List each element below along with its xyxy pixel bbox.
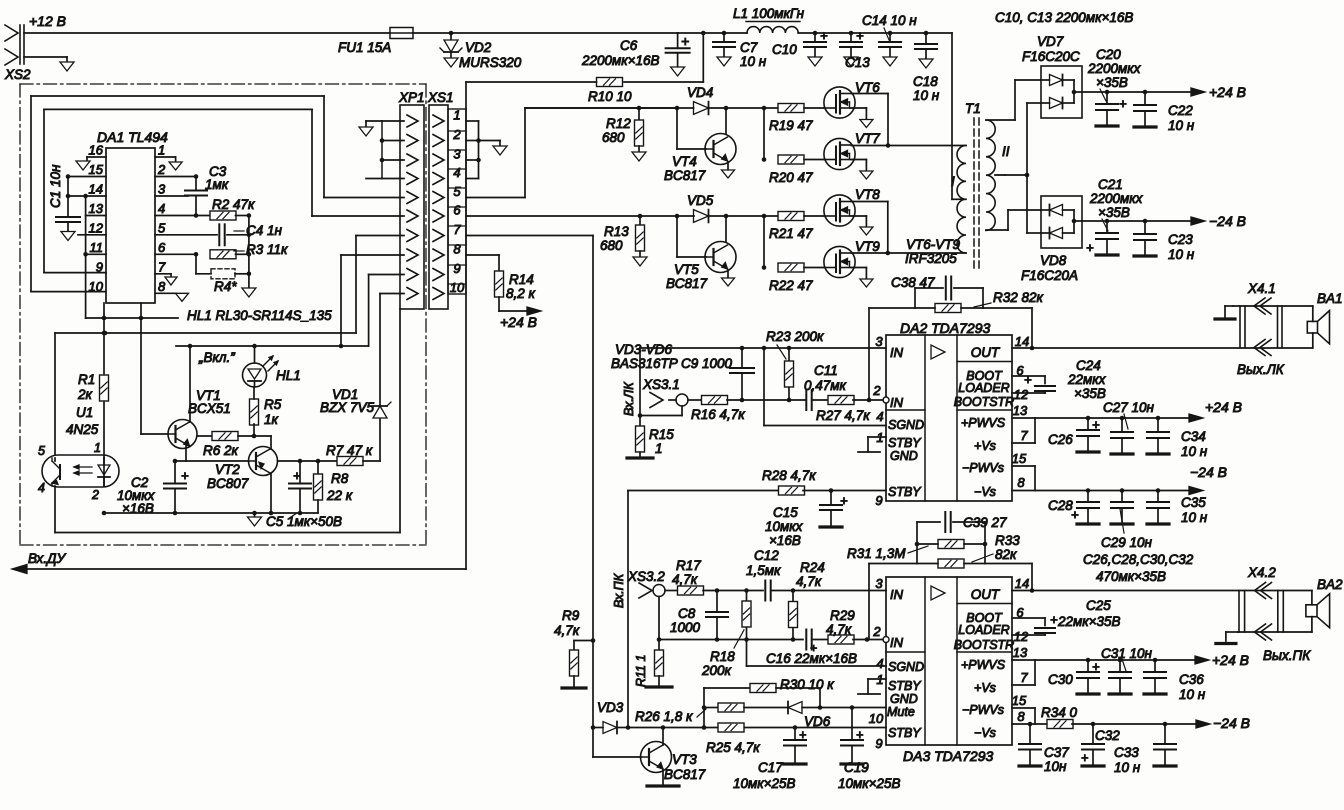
svg-text:C12: C12 <box>754 548 779 563</box>
svg-text:VT9: VT9 <box>855 239 880 254</box>
svg-text:R21 47: R21 47 <box>769 226 813 241</box>
svg-text:II: II <box>1002 144 1010 159</box>
svg-text:+: + <box>681 33 689 49</box>
svg-text:VD8: VD8 <box>1040 253 1067 268</box>
svg-text:BC817: BC817 <box>664 767 706 782</box>
svg-text:22мк×35В: 22мк×35В <box>1057 614 1121 629</box>
svg-text:+24 В: +24 В <box>1209 84 1246 100</box>
svg-text:10 н: 10 н <box>1168 118 1195 133</box>
svg-text:2200мк×16В: 2200мк×16В <box>581 53 660 68</box>
svg-text:10мкх: 10мкх <box>765 519 804 534</box>
svg-text:6: 6 <box>453 203 461 218</box>
svg-text:C26,C28,C30,C32: C26,C28,C30,C32 <box>1083 552 1194 567</box>
svg-text:R26 1,8 к: R26 1,8 к <box>635 709 693 724</box>
svg-text:10 н: 10 н <box>1181 510 1208 525</box>
svg-text:×16В: ×16В <box>122 501 154 516</box>
svg-text:U1: U1 <box>76 405 93 420</box>
svg-text:10н: 10н <box>1044 759 1067 774</box>
svg-text:C37: C37 <box>1044 745 1069 760</box>
svg-text:7: 7 <box>1020 670 1028 685</box>
svg-text:Mute: Mute <box>887 705 915 719</box>
svg-text:+: + <box>840 493 848 508</box>
svg-text:4N25: 4N25 <box>66 422 99 437</box>
svg-text:1000: 1000 <box>670 620 701 635</box>
svg-text:13: 13 <box>1013 645 1028 660</box>
svg-text:C5 1мк×50В: C5 1мк×50В <box>266 514 342 529</box>
svg-text:R22 47: R22 47 <box>769 278 813 293</box>
svg-text:C13: C13 <box>845 55 870 70</box>
svg-text:1мк: 1мк <box>205 177 229 192</box>
svg-text:XS3.2: XS3.2 <box>627 569 665 584</box>
svg-text:VT2: VT2 <box>215 462 240 477</box>
svg-text:+: + <box>1119 96 1127 111</box>
svg-text:R1: R1 <box>78 372 95 387</box>
svg-text:10 н: 10 н <box>913 88 940 103</box>
svg-text:5: 5 <box>453 184 461 199</box>
svg-text:BA1: BA1 <box>1317 291 1343 306</box>
svg-text:C24: C24 <box>1076 358 1101 373</box>
svg-text:−Vs: −Vs <box>974 726 996 740</box>
svg-text:R19 47: R19 47 <box>769 118 813 133</box>
svg-text:Вых.ЛК: Вых.ЛК <box>1237 362 1285 377</box>
svg-text:+12 В: +12 В <box>29 13 66 29</box>
svg-text:5: 5 <box>38 444 45 458</box>
svg-text:T1: T1 <box>965 101 981 116</box>
svg-text:+PWVS: +PWVS <box>961 658 1006 672</box>
svg-text:C25: C25 <box>1086 598 1111 613</box>
svg-text:C4 1н: C4 1н <box>246 223 283 238</box>
svg-text:+Vs: +Vs <box>974 681 996 695</box>
svg-text:200к: 200к <box>701 663 732 678</box>
svg-text:VD2: VD2 <box>465 40 492 55</box>
svg-text:VT5: VT5 <box>674 262 699 277</box>
svg-text:C31 10н: C31 10н <box>1101 646 1153 661</box>
svg-text:1: 1 <box>94 441 101 455</box>
svg-text:R25 4,7к: R25 4,7к <box>706 740 760 755</box>
svg-text:R2 47к: R2 47к <box>212 197 255 212</box>
svg-text:−Vs: −Vs <box>974 485 996 499</box>
svg-text:BOOTSTR: BOOTSTR <box>954 638 1014 652</box>
svg-text:+: + <box>1081 751 1088 765</box>
svg-text:R31 1,3М: R31 1,3М <box>847 546 906 561</box>
svg-text:3: 3 <box>875 334 883 349</box>
svg-text:14: 14 <box>1015 576 1029 591</box>
svg-text:VT4: VT4 <box>672 154 697 169</box>
svg-text:R4*: R4* <box>214 279 237 294</box>
svg-text:F16C20C: F16C20C <box>1022 49 1080 64</box>
svg-text:9: 9 <box>875 736 882 751</box>
svg-text:R5: R5 <box>264 397 282 412</box>
svg-text:12: 12 <box>1014 387 1029 402</box>
svg-text:14: 14 <box>1015 334 1029 349</box>
svg-text:STBY: STBY <box>888 485 922 499</box>
svg-text:−PWVs: −PWVs <box>962 703 1004 717</box>
svg-text:10 н: 10 н <box>1168 247 1195 262</box>
svg-text:+: + <box>799 728 806 742</box>
svg-text:×16В: ×16В <box>769 533 801 548</box>
svg-text:C26: C26 <box>1048 432 1073 447</box>
svg-text:R11 1: R11 1 <box>634 655 648 687</box>
svg-text:+24 В: +24 В <box>500 314 537 330</box>
svg-text:Вх.ЛК: Вх.ЛК <box>622 382 636 416</box>
svg-text:BZX 7V5: BZX 7V5 <box>320 400 375 415</box>
svg-text:VT8: VT8 <box>855 187 880 202</box>
svg-text:IN: IN <box>890 587 904 602</box>
svg-text:C27 10н: C27 10н <box>1103 400 1155 415</box>
svg-text:L1 100мкГн: L1 100мкГн <box>733 6 805 21</box>
svg-text:Вх.ДУ: Вх.ДУ <box>28 551 67 566</box>
svg-text:R9: R9 <box>562 608 580 623</box>
svg-text:+24 В: +24 В <box>1205 399 1242 415</box>
svg-text:+PWVS: +PWVS <box>961 416 1006 430</box>
svg-text:C11: C11 <box>814 363 838 378</box>
svg-text:IN: IN <box>890 635 904 650</box>
svg-text:R10 10: R10 10 <box>588 89 632 104</box>
svg-text:7: 7 <box>453 222 461 237</box>
svg-text:C10, C13 2200мк×16В: C10, C13 2200мк×16В <box>995 10 1133 25</box>
svg-text:BC807: BC807 <box>207 476 249 491</box>
svg-text:R32 82к: R32 82к <box>993 290 1044 305</box>
svg-text:10 н: 10 н <box>1179 687 1206 702</box>
svg-text:XS1: XS1 <box>427 90 454 105</box>
svg-text:4: 4 <box>158 201 165 216</box>
svg-text:R17: R17 <box>676 558 701 573</box>
svg-text:15: 15 <box>1012 693 1027 708</box>
svg-text:1к: 1к <box>264 412 279 427</box>
svg-text:+: + <box>1024 372 1032 387</box>
svg-text:10мк×25В: 10мк×25В <box>838 776 901 791</box>
svg-text:470мк×35В: 470мк×35В <box>1096 569 1166 584</box>
svg-text:FU1 15A: FU1 15A <box>338 40 391 55</box>
svg-text:IN: IN <box>890 395 904 410</box>
svg-text:IN: IN <box>890 345 904 360</box>
svg-text:XS2: XS2 <box>4 67 31 82</box>
svg-text:C21: C21 <box>1098 177 1123 192</box>
svg-text:IRF3205: IRF3205 <box>905 251 957 266</box>
svg-text:C32: C32 <box>1095 728 1120 743</box>
svg-text:+: + <box>1092 659 1100 674</box>
svg-text:C10: C10 <box>772 42 797 57</box>
svg-text:C34: C34 <box>1181 429 1206 444</box>
svg-text:1: 1 <box>158 143 165 158</box>
svg-text:OUT: OUT <box>971 587 1001 602</box>
svg-text:15: 15 <box>89 162 104 177</box>
svg-text:12: 12 <box>89 220 104 235</box>
svg-text:R27 4,7к: R27 4,7к <box>816 408 870 423</box>
svg-text:SGND: SGND <box>888 660 924 674</box>
svg-text:4: 4 <box>38 481 45 495</box>
svg-text:4: 4 <box>876 409 883 424</box>
svg-text:+: + <box>1050 612 1058 627</box>
svg-text:×35В: ×35В <box>1096 75 1128 90</box>
svg-text:C18: C18 <box>913 74 938 89</box>
svg-text:4,7к: 4,7к <box>554 623 580 638</box>
svg-text:VD5: VD5 <box>687 193 714 208</box>
svg-text:+: + <box>1092 417 1100 432</box>
svg-text:STBY: STBY <box>888 679 922 693</box>
svg-text:+Vs: +Vs <box>974 439 996 453</box>
svg-text:VD7: VD7 <box>1037 34 1064 49</box>
svg-text:LOADER: LOADER <box>958 381 1009 395</box>
svg-text:X4.1: X4.1 <box>1247 281 1276 296</box>
svg-text:C1 10н: C1 10н <box>48 164 63 208</box>
svg-text:BCX51: BCX51 <box>188 401 231 416</box>
svg-text:I: I <box>951 174 955 189</box>
svg-text:2: 2 <box>872 624 881 639</box>
svg-text:GND: GND <box>890 692 918 706</box>
svg-text:5: 5 <box>158 220 166 235</box>
svg-text:C19: C19 <box>844 760 869 775</box>
svg-text:6: 6 <box>158 240 166 255</box>
svg-text:9: 9 <box>453 261 460 276</box>
svg-text:13: 13 <box>1013 403 1028 418</box>
svg-text:R30 10 к: R30 10 к <box>780 677 834 692</box>
svg-text:2: 2 <box>872 383 881 398</box>
svg-text:BC817: BC817 <box>664 168 706 183</box>
svg-text:8: 8 <box>453 242 461 257</box>
svg-text:2к: 2к <box>77 387 93 402</box>
svg-text:VT7: VT7 <box>855 131 880 146</box>
svg-text:3: 3 <box>158 182 166 197</box>
svg-text:7: 7 <box>1020 428 1028 443</box>
svg-text:16: 16 <box>89 143 104 158</box>
svg-text:680: 680 <box>600 238 623 253</box>
svg-text:R20 47: R20 47 <box>769 170 813 185</box>
svg-text:C22: C22 <box>1168 103 1193 118</box>
svg-text:22мкх: 22мкх <box>1067 372 1107 387</box>
svg-text:1: 1 <box>453 108 460 123</box>
svg-text:C7: C7 <box>740 40 758 55</box>
svg-text:C29 10н: C29 10н <box>1101 535 1153 550</box>
svg-text:13: 13 <box>89 201 104 216</box>
svg-text:R33: R33 <box>995 533 1020 548</box>
svg-text:SGND: SGND <box>888 418 924 432</box>
svg-text:R13: R13 <box>604 224 629 239</box>
svg-text:−24 В: −24 В <box>1209 213 1246 229</box>
svg-text:C9 1000: C9 1000 <box>681 356 733 371</box>
svg-text:VD4: VD4 <box>687 85 713 100</box>
svg-text:X4.2: X4.2 <box>1247 565 1276 580</box>
svg-text:R12: R12 <box>606 116 631 131</box>
svg-text:8: 8 <box>1017 475 1025 490</box>
svg-text:3: 3 <box>453 147 461 162</box>
svg-text:4: 4 <box>453 165 460 180</box>
svg-text:R29: R29 <box>830 608 855 623</box>
svg-text:10: 10 <box>869 711 884 726</box>
svg-text:9: 9 <box>875 493 882 508</box>
svg-text:ВС817: ВС817 <box>666 276 707 291</box>
svg-text:C20: C20 <box>1096 47 1121 62</box>
svg-text:0,47мк: 0,47мк <box>804 378 847 393</box>
svg-text:R16 4,7к: R16 4,7к <box>691 407 745 422</box>
svg-text:„Вкл.”: „Вкл.” <box>198 350 235 365</box>
svg-text:2: 2 <box>452 127 461 142</box>
svg-text:MURS320: MURS320 <box>459 55 522 70</box>
svg-text:−24 В: −24 В <box>1213 715 1250 731</box>
svg-text:C28: C28 <box>1048 498 1073 513</box>
svg-text:R18: R18 <box>710 649 735 664</box>
svg-text:×35В: ×35В <box>1098 205 1130 220</box>
svg-text:3: 3 <box>875 576 883 591</box>
svg-text:82к: 82к <box>995 547 1017 562</box>
svg-text:VD3-VD6: VD3-VD6 <box>615 342 673 357</box>
svg-text:R14: R14 <box>509 272 534 287</box>
svg-text:C14 10 н: C14 10 н <box>862 13 917 28</box>
svg-text:OUT: OUT <box>971 345 1001 360</box>
svg-text:−PWVs: −PWVs <box>962 461 1004 475</box>
svg-text:8: 8 <box>1017 709 1025 724</box>
svg-text:C35: C35 <box>1181 495 1206 510</box>
svg-text:R3 11к: R3 11к <box>246 242 288 257</box>
svg-text:R34 0: R34 0 <box>1041 705 1078 720</box>
svg-text:Вых.ПК: Вых.ПК <box>1263 648 1311 663</box>
svg-text:VD3: VD3 <box>597 700 624 715</box>
svg-text:C30: C30 <box>1048 672 1073 687</box>
svg-text:F16C20A: F16C20A <box>1021 268 1078 283</box>
svg-text:+: + <box>856 28 864 43</box>
svg-text:7: 7 <box>158 259 166 274</box>
svg-text:2: 2 <box>91 488 99 502</box>
svg-text:C36: C36 <box>1179 672 1204 687</box>
svg-text:11: 11 <box>90 240 104 255</box>
svg-text:4,7к: 4,7к <box>796 574 822 589</box>
svg-text:DA2 TDA7293: DA2 TDA7293 <box>900 320 990 336</box>
svg-text:+: + <box>181 468 189 483</box>
svg-text:2200мкх: 2200мкх <box>1087 61 1142 76</box>
svg-text:R28 4,7к: R28 4,7к <box>762 468 816 483</box>
svg-text:2: 2 <box>157 162 166 177</box>
svg-text:2200мкх: 2200мкх <box>1089 191 1144 206</box>
svg-text:C16 22мк×16В: C16 22мк×16В <box>766 651 857 666</box>
svg-text:4,7к: 4,7к <box>672 572 698 587</box>
svg-text:R23 200к: R23 200к <box>766 329 824 344</box>
svg-text:C33: C33 <box>1114 745 1139 760</box>
svg-text:+: + <box>293 468 301 483</box>
svg-text:GND: GND <box>890 449 918 463</box>
svg-text:+: + <box>820 28 828 43</box>
svg-text:C6: C6 <box>620 38 638 53</box>
svg-text:BOOTSTR: BOOTSTR <box>954 395 1014 409</box>
svg-text:R15: R15 <box>649 427 674 442</box>
svg-text:680: 680 <box>602 130 625 145</box>
svg-text:R24: R24 <box>800 560 825 575</box>
svg-text:HL1: HL1 <box>276 368 301 383</box>
svg-text:15: 15 <box>1012 451 1027 466</box>
svg-text:C23: C23 <box>1168 232 1193 247</box>
svg-text:10 н: 10 н <box>1181 444 1208 459</box>
svg-text:+: + <box>856 728 863 742</box>
svg-text:STBY: STBY <box>888 436 922 450</box>
svg-text:HL1 RL30-SR114S_135: HL1 RL30-SR114S_135 <box>187 308 332 323</box>
svg-text:8,2 к: 8,2 к <box>506 286 536 301</box>
svg-text:4: 4 <box>876 656 883 671</box>
svg-text:4,7к: 4,7к <box>826 622 852 637</box>
svg-text:12: 12 <box>1014 629 1029 644</box>
svg-text:C17: C17 <box>758 760 783 775</box>
svg-text:10: 10 <box>450 280 465 295</box>
svg-text:1,5мк: 1,5мк <box>746 563 781 578</box>
svg-text:10 н: 10 н <box>1114 760 1141 775</box>
svg-text:BAS316TP: BAS316TP <box>611 356 678 371</box>
svg-text:STBY: STBY <box>888 726 922 740</box>
svg-text:+: + <box>1086 240 1094 255</box>
svg-text:DA3 TDA7293: DA3 TDA7293 <box>903 748 993 764</box>
svg-text:+24 В: +24 В <box>1212 652 1249 668</box>
svg-text:1: 1 <box>655 441 663 456</box>
svg-text:Вх.ПК: Вх.ПК <box>612 573 626 608</box>
svg-text:−24 В: −24 В <box>1190 464 1227 480</box>
svg-text:10 н: 10 н <box>740 54 767 69</box>
svg-text:14: 14 <box>89 182 103 197</box>
svg-text:R6 2к: R6 2к <box>203 443 239 458</box>
svg-text:×35В: ×35В <box>1074 386 1106 401</box>
svg-text:VT6-VT9: VT6-VT9 <box>906 237 961 252</box>
svg-text:C8: C8 <box>678 606 696 621</box>
svg-text:LOADER: LOADER <box>958 623 1009 637</box>
svg-text:VT3: VT3 <box>672 752 697 767</box>
svg-text:R7 47 к: R7 47 к <box>326 443 373 458</box>
svg-text:XS3.1: XS3.1 <box>642 377 680 392</box>
svg-text:10мк×25В: 10мк×25В <box>733 776 796 791</box>
svg-text:XP1: XP1 <box>398 90 425 105</box>
svg-text:C15: C15 <box>773 505 798 520</box>
svg-text:22 к: 22 к <box>326 488 353 503</box>
svg-text:R8: R8 <box>331 471 349 486</box>
svg-text:8: 8 <box>158 279 166 294</box>
svg-text:BA2: BA2 <box>1317 577 1343 592</box>
